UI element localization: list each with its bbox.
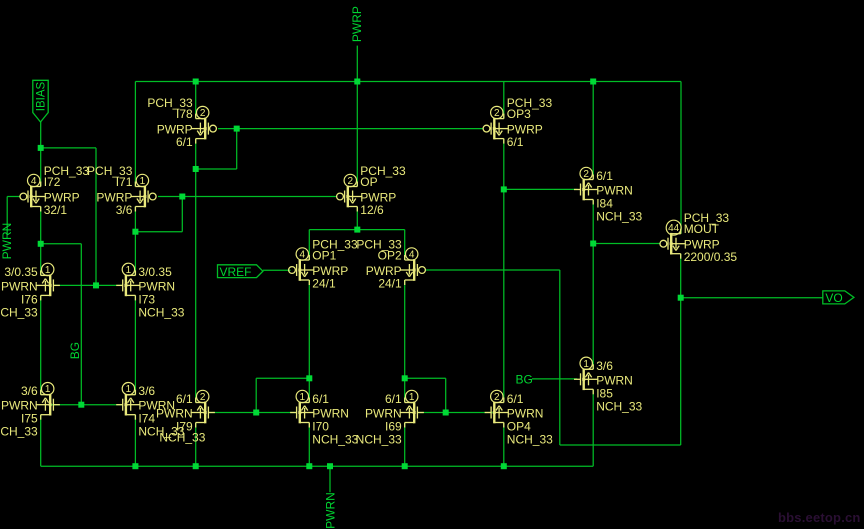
wire I72 gate down to PWRN label xyxy=(6,197,8,236)
wire I69 diode link xyxy=(405,377,446,379)
svg-text:PWRN: PWRN xyxy=(365,407,402,421)
svg-text:BG: BG xyxy=(68,342,82,359)
wire OP2 gate right xyxy=(425,269,559,271)
transistor OP4 (NCH_33) xyxy=(485,398,509,428)
wire I69 source to ground xyxy=(404,423,406,467)
svg-text:3/6: 3/6 xyxy=(596,359,613,373)
pin number 2 of I78 xyxy=(197,106,209,119)
wire I70 diode link down xyxy=(255,378,257,412)
transistor I73 (NCH_33) xyxy=(116,270,140,300)
svg-text:IBIAS: IBIAS xyxy=(36,81,48,111)
transistor I72 (PCH_33) xyxy=(20,182,46,212)
wire second stage node to MOUT gate xyxy=(593,243,660,245)
svg-text:NCH_33: NCH_33 xyxy=(0,425,38,439)
wire I74 source to ground rail xyxy=(134,415,136,467)
svg-text:2: 2 xyxy=(200,108,206,119)
wire top rail to OP3 source xyxy=(503,82,505,119)
junction I78 gate xyxy=(234,126,240,132)
pin number 2 of OP3 xyxy=(491,106,503,119)
transistor OP2 (PCH_33) xyxy=(400,255,426,285)
svg-text:32/1: 32/1 xyxy=(44,203,68,217)
wire PWRP down to OP source xyxy=(356,82,358,187)
svg-text:I78: I78 xyxy=(176,107,193,121)
wire OP3 drain to I84 gate xyxy=(504,188,578,190)
wire I70 diode link xyxy=(256,377,309,379)
transistor MOUT (PCH_33) xyxy=(660,229,686,259)
pin number 2 of OP4 xyxy=(491,390,503,403)
wire I85 source to ground xyxy=(592,389,594,466)
wire I78 drain down to I79 drain xyxy=(195,139,197,403)
svg-text:2: 2 xyxy=(348,176,354,187)
wire I73 source to I74 drain xyxy=(134,295,136,394)
wire I75 source to ground rail xyxy=(40,415,42,467)
svg-text:PWRN: PWRN xyxy=(0,223,14,260)
wire top rail to MOUT source xyxy=(680,82,682,234)
svg-text:44: 44 xyxy=(668,223,680,234)
wire MOUT drain to VO pin xyxy=(681,297,823,299)
transistor I69 (NCH_33) xyxy=(400,398,424,428)
svg-text:NCH_33: NCH_33 xyxy=(507,433,553,447)
pin number 2 of I84 xyxy=(580,167,592,180)
svg-text:OP4: OP4 xyxy=(507,420,531,434)
svg-text:4: 4 xyxy=(300,250,306,261)
svg-text:I70: I70 xyxy=(312,420,329,434)
junction ground / I69 xyxy=(402,463,408,469)
svg-text:PWRN: PWRN xyxy=(156,407,193,421)
svg-text:I72: I72 xyxy=(44,175,61,189)
junction I70 diode xyxy=(306,375,312,381)
wire IBIAS branch down to mirror gates xyxy=(95,148,97,286)
wire I76 gate to I73 gate xyxy=(53,284,122,286)
svg-text:BG: BG xyxy=(516,372,533,386)
wire diff pair source rail xyxy=(309,229,404,231)
svg-text:NCH_33: NCH_33 xyxy=(312,433,358,447)
svg-text:OP2: OP2 xyxy=(378,249,402,263)
wire to I78 drain xyxy=(196,168,237,170)
svg-text:NCH_33: NCH_33 xyxy=(596,210,642,224)
wire I72 drain to I76 drain xyxy=(40,207,42,276)
wire top rail to I78 source xyxy=(195,82,197,119)
junction top rail / I84 xyxy=(590,79,596,85)
svg-text:3/6: 3/6 xyxy=(21,384,38,398)
svg-text:I71: I71 xyxy=(116,175,133,189)
svg-text:PWRN: PWRN xyxy=(1,399,38,413)
svg-text:NCH_33: NCH_33 xyxy=(596,399,642,413)
svg-text:6/1: 6/1 xyxy=(596,169,613,183)
svg-text:4: 4 xyxy=(409,250,415,261)
wire OP4 source to ground xyxy=(503,423,505,467)
junction IBIAS branch xyxy=(38,145,44,151)
junction BG branch xyxy=(38,241,44,247)
svg-text:bbs.eetop.cn: bbs.eetop.cn xyxy=(778,510,861,525)
wire OP2 drain to I69 drain xyxy=(404,280,406,403)
wire feedback vertical xyxy=(559,270,561,445)
svg-text:PWRP: PWRP xyxy=(350,6,364,42)
svg-text:1: 1 xyxy=(409,392,415,403)
wire I76 source to I75 drain xyxy=(40,295,42,394)
wire BG to I85 gate xyxy=(532,378,577,380)
wire down to OP1 source xyxy=(308,230,310,260)
svg-text:3/6: 3/6 xyxy=(138,384,155,398)
wire I70 source to ground xyxy=(308,423,310,467)
junction I78 drain xyxy=(193,166,199,172)
svg-text:PWRN: PWRN xyxy=(324,492,338,529)
svg-text:PWRN: PWRN xyxy=(138,279,175,293)
wire I69 gate to OP4 gate xyxy=(417,412,492,414)
svg-text:6/1: 6/1 xyxy=(385,392,402,406)
wire OP3 drain down to OP4 drain xyxy=(503,139,505,403)
pin number 1 of I74 xyxy=(122,383,134,396)
wire I79 gate to I70 gate xyxy=(208,412,297,414)
wire BG branch right xyxy=(41,243,82,245)
wire MOUT drain down xyxy=(680,254,682,445)
pin IBIAS (input pin, pointing down) xyxy=(33,80,48,122)
svg-text:2: 2 xyxy=(583,169,589,180)
wire PWRN label stub xyxy=(329,466,331,492)
junction I69 diode xyxy=(402,375,408,381)
pin number 4 of OP1 xyxy=(296,248,308,261)
pin number 44 of MOUT xyxy=(666,220,681,235)
junction I84 drain / MOUT gate xyxy=(590,241,596,247)
transistor I79 (NCH_33) xyxy=(191,398,215,428)
svg-text:1: 1 xyxy=(45,384,51,395)
transistor OP (PCH_33) xyxy=(337,182,363,212)
svg-text:I75: I75 xyxy=(21,412,38,426)
svg-text:12/6: 12/6 xyxy=(360,203,384,217)
svg-text:NCH_33: NCH_33 xyxy=(159,431,205,445)
svg-text:1: 1 xyxy=(300,392,306,403)
junction OP3 drain / I84 gate xyxy=(501,186,507,192)
svg-text:PWRN: PWRN xyxy=(596,373,633,387)
svg-text:OP: OP xyxy=(360,175,377,189)
svg-text:1: 1 xyxy=(126,384,132,395)
svg-text:1: 1 xyxy=(126,265,132,276)
wire top rail down to I71 source xyxy=(134,82,136,187)
svg-text:2200/0.35: 2200/0.35 xyxy=(684,250,738,264)
junction VO xyxy=(678,295,684,301)
svg-text:24/1: 24/1 xyxy=(378,277,402,291)
junction mirror gates xyxy=(93,282,99,288)
junction OP drain / diff sources xyxy=(354,227,360,233)
svg-text:OP1: OP1 xyxy=(312,249,336,263)
pin number 2 of I79 xyxy=(197,390,209,403)
pin number 1 of I75 xyxy=(42,383,54,396)
svg-text:I69: I69 xyxy=(385,420,402,434)
svg-text:2: 2 xyxy=(494,108,500,119)
pin number 1 of I85 xyxy=(580,357,592,370)
svg-text:NCH_33: NCH_33 xyxy=(138,305,184,319)
pin VREF (input pin, pointing right) xyxy=(218,265,263,279)
svg-text:1: 1 xyxy=(583,359,589,370)
pin number 2 of OP xyxy=(344,174,356,187)
wire I79 source to ground xyxy=(195,423,197,467)
svg-text:PWRN: PWRN xyxy=(507,407,544,421)
wire I75 gate to I74 gate xyxy=(50,404,122,406)
wire OP1 drain to I70 drain xyxy=(308,280,310,403)
pin number 1 of I71 xyxy=(136,174,148,187)
svg-text:PWRN: PWRN xyxy=(1,279,38,293)
svg-text:VO: VO xyxy=(825,291,842,305)
junction top rail / PWRP xyxy=(354,79,360,85)
transistor I75 (NCH_33) xyxy=(36,390,60,420)
wire I71 gate to OP gate xyxy=(158,196,337,198)
svg-text:3/6: 3/6 xyxy=(116,203,133,217)
wire I78 gate to OP3 gate xyxy=(218,128,483,130)
wire I72 gate left xyxy=(7,196,20,198)
wire top rail to I84 drain xyxy=(592,82,594,180)
wire PWRN ground rail xyxy=(41,465,594,467)
svg-text:6/1: 6/1 xyxy=(507,392,524,406)
transistor I78 (PCH_33) xyxy=(191,114,217,144)
svg-text:MOUT: MOUT xyxy=(684,222,720,236)
svg-text:I84: I84 xyxy=(596,197,613,211)
junction ground / PWRN label xyxy=(327,463,333,469)
svg-text:6/1: 6/1 xyxy=(176,392,193,406)
svg-text:3/0.35: 3/0.35 xyxy=(138,265,172,279)
junction ground / I79 xyxy=(193,463,199,469)
svg-text:PWRN: PWRN xyxy=(596,184,633,198)
wire OP drain down xyxy=(356,207,358,230)
junction I69 OP4 gates xyxy=(443,410,449,416)
svg-text:6/1: 6/1 xyxy=(507,135,524,149)
wire I69 diode link down xyxy=(445,378,447,412)
wire top PWRP rail xyxy=(135,81,681,83)
junction top rail / I78 xyxy=(193,79,199,85)
svg-text:6/1: 6/1 xyxy=(312,392,329,406)
svg-text:3/0.35: 3/0.35 xyxy=(4,265,38,279)
wire BG vertical xyxy=(80,244,82,405)
svg-text:1: 1 xyxy=(140,176,146,187)
wire VREF to OP1 gate xyxy=(263,269,291,271)
svg-text:2: 2 xyxy=(494,392,500,403)
wire PWRP stub from label to top rail xyxy=(356,46,358,82)
transistor OP1 (PCH_33) xyxy=(289,255,315,285)
wire link to I71 drain rail xyxy=(135,231,182,233)
svg-text:1: 1 xyxy=(45,265,51,276)
transistor I84 (NCH_33) xyxy=(574,175,598,205)
junction I71 gate link xyxy=(179,194,185,200)
transistor I76 (NCH_33) xyxy=(36,270,60,300)
pin number 4 of OP2 xyxy=(406,248,418,261)
svg-text:I85: I85 xyxy=(596,386,613,400)
transistor I74 (NCH_33) xyxy=(116,390,140,420)
wire I78 gate down xyxy=(236,129,238,169)
wire feedback bottom xyxy=(560,444,681,446)
svg-text:2: 2 xyxy=(200,392,206,403)
pin VO (output pin, pointing right) xyxy=(823,291,854,305)
junction I79 I70 gates xyxy=(253,410,259,416)
svg-text:NCH_33: NCH_33 xyxy=(356,433,402,447)
pin number 1 of I70 xyxy=(296,390,308,403)
svg-text:24/1: 24/1 xyxy=(312,277,336,291)
svg-text:I74: I74 xyxy=(138,412,155,426)
pin number 1 of I73 xyxy=(122,263,134,276)
svg-text:PWRN: PWRN xyxy=(312,407,349,421)
wire I71 drain to I73 drain xyxy=(134,207,136,276)
junction ground / I70 xyxy=(306,463,312,469)
wire down to OP2 source xyxy=(404,230,406,260)
transistor I71 (PCH_33) xyxy=(130,182,156,212)
svg-text:I73: I73 xyxy=(138,292,155,306)
junction I71 drain link xyxy=(132,229,138,235)
svg-text:6/1: 6/1 xyxy=(176,135,193,149)
svg-text:4: 4 xyxy=(31,176,37,187)
transistor I70 (NCH_33) xyxy=(290,398,314,428)
pin number 1 of I76 xyxy=(42,263,54,276)
wire I84 source to I85 drain xyxy=(592,200,594,370)
svg-text:NCH_33: NCH_33 xyxy=(0,305,38,319)
junction BG / I75 I74 gates xyxy=(78,402,84,408)
transistor I85 (NCH_33) xyxy=(574,364,598,394)
svg-text:VREF: VREF xyxy=(220,265,252,279)
svg-text:I76: I76 xyxy=(21,292,38,306)
svg-text:OP3: OP3 xyxy=(507,107,531,121)
wire I71 gate link down xyxy=(181,197,183,232)
junction ground / I74 xyxy=(132,463,138,469)
wire IBIAS pin down to I72 source xyxy=(40,122,42,187)
pin number 4 of I72 xyxy=(28,174,40,187)
wire IBIAS branch right xyxy=(41,147,96,149)
transistor OP3 (PCH_33) xyxy=(483,114,509,144)
pin number 1 of I69 xyxy=(406,390,418,403)
junction ground / OP4 xyxy=(501,463,507,469)
